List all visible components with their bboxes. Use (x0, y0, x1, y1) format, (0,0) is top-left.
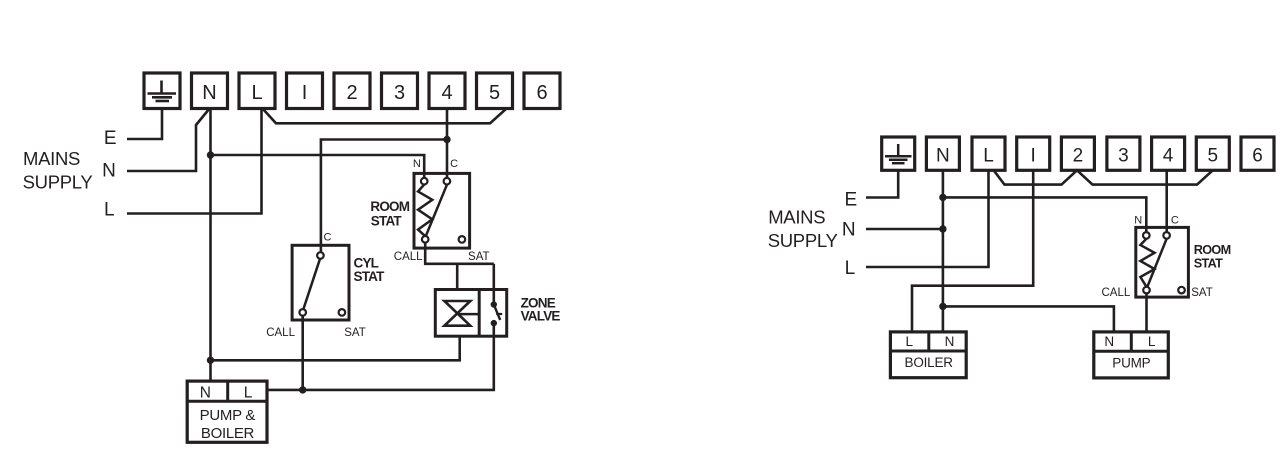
svg-text:I: I (302, 82, 308, 104)
TEXT LABELS (202, 82, 547, 104)
wire N branch to room stat right (943, 197, 1146, 235)
svg-text:PUMP: PUMP (1112, 355, 1150, 370)
wire N branch to room stat left (211, 155, 425, 181)
terminal box 3 left (382, 73, 418, 109)
room stat terminal CALL circle left (422, 236, 429, 243)
svg-text:L: L (1148, 334, 1156, 349)
svg-text:N: N (413, 158, 421, 170)
svg-text:3: 3 (1118, 146, 1129, 167)
zone valve motor hourglass left (444, 301, 470, 326)
wire to zone valve motor left (456, 264, 459, 290)
svg-text:N: N (1134, 215, 1142, 227)
pump terminal divider right (1130, 332, 1133, 351)
svg-text:PUMP &: PUMP & (200, 407, 256, 424)
svg-text:MAINS: MAINS (23, 148, 80, 169)
svg-text:CALL: CALL (394, 251, 423, 263)
room stat resistor zigzag right (1140, 239, 1154, 287)
svg-text:C: C (450, 158, 458, 170)
room stat terminal CALL circle right (1143, 287, 1150, 294)
terminal box 4 right (1152, 137, 1185, 170)
junction dot N-branch left (207, 151, 214, 158)
zone valve switch bottom contact left (491, 320, 497, 326)
room stat terminal C circle left (444, 178, 451, 185)
zone valve switch arm left (494, 305, 500, 321)
room stat terminal SAT circle left (459, 236, 466, 243)
svg-text:SUPPLY: SUPPLY (768, 230, 838, 251)
cyl stat terminal C circle left (317, 252, 324, 259)
svg-text:BOILER: BOILER (201, 425, 255, 442)
cyl stat terminal CALL circle left (299, 309, 306, 316)
wire link L to terminal 5 left (263, 109, 507, 124)
svg-text:N: N (102, 161, 116, 182)
wire room stat CALL to pump L right (1145, 293, 1148, 332)
wire terminal 4 to room stat C left (446, 109, 449, 182)
svg-text:N: N (200, 385, 211, 402)
svg-text:VALVE: VALVE (521, 308, 561, 323)
svg-text:4: 4 (1163, 146, 1174, 167)
svg-text:SAT: SAT (344, 327, 366, 339)
room stat switch arm right (1147, 239, 1166, 287)
svg-text:STAT: STAT (354, 269, 386, 284)
terminal box 3 right (1107, 137, 1140, 170)
svg-text:BOILER: BOILER (905, 355, 954, 370)
junction dot N branch right (939, 194, 946, 201)
cyl stat box left (292, 245, 349, 320)
svg-text:N: N (936, 146, 950, 167)
room stat terminal N circle left (421, 178, 428, 185)
pump box right (1094, 332, 1169, 378)
room stat resistor zigzag left (418, 185, 432, 236)
svg-text:5: 5 (489, 82, 500, 104)
wire terminal 1 to boiler L right (912, 170, 1033, 332)
junction dot cyl stat call left (299, 386, 306, 393)
room stat box right (1136, 227, 1189, 297)
cyl stat terminal SAT circle left (339, 309, 346, 316)
terminal box 5 left (477, 73, 513, 109)
wire cyl stat CALL down left (301, 316, 304, 390)
wire zone valve motor to N junction left (211, 336, 460, 360)
zone valve box left (435, 290, 506, 337)
svg-text:2: 2 (1073, 146, 1084, 167)
svg-text:2: 2 (346, 82, 357, 104)
pump and boiler terminal divider left (226, 381, 229, 401)
room stat terminal N circle right (1143, 232, 1150, 239)
wire zone valve switch to pump L left (267, 323, 494, 390)
terminal box N right (926, 137, 959, 170)
wire N split to pump right (943, 306, 1114, 332)
svg-text:SAT: SAT (468, 251, 490, 263)
junction dot N supply right (939, 225, 946, 232)
earth symbol left (148, 81, 177, 102)
svg-text:C: C (1171, 215, 1179, 227)
svg-text:5: 5 (1208, 146, 1219, 167)
wire N supply left (127, 109, 210, 172)
wire room stat CALL to zone valve left (425, 243, 494, 264)
wire to cyl stat C left (321, 140, 447, 256)
wire L supply right (866, 170, 989, 267)
pump and boiler terminal row line left (187, 400, 267, 403)
svg-text:SAT: SAT (1191, 287, 1213, 299)
boiler box right (890, 332, 966, 378)
wire N main vertical right (942, 170, 945, 332)
zone valve motor link line left (457, 313, 479, 316)
svg-text:ROOM: ROOM (1194, 243, 1231, 257)
boiler terminal row line right (890, 350, 966, 353)
svg-text:I: I (1031, 146, 1036, 167)
cyl stat switch arm left (304, 259, 321, 309)
terminal box 2 left (334, 73, 370, 109)
svg-text:C: C (324, 231, 332, 243)
svg-text:L: L (104, 199, 115, 220)
svg-text:L: L (983, 146, 994, 167)
wire E supply right (866, 170, 898, 197)
terminal box L left (239, 73, 275, 109)
junction dot terminal4-cyl left (443, 136, 450, 143)
wire E supply left (127, 109, 162, 140)
terminal box 1 left (287, 73, 323, 109)
room stat terminal SAT circle right (1178, 287, 1185, 294)
terminal box N left (192, 73, 228, 109)
svg-text:L: L (845, 258, 856, 279)
wire link L to 2 to 5 right (994, 170, 1213, 184)
terminal box E (earth) right (882, 137, 915, 170)
svg-text:CALL: CALL (1102, 287, 1131, 299)
wire N main vertical left (209, 109, 212, 382)
svg-text:N: N (1104, 334, 1114, 349)
wire N supply right (866, 228, 943, 231)
junction dot N split right (939, 303, 946, 310)
svg-text:E: E (104, 128, 117, 149)
svg-text:MAINS: MAINS (768, 207, 825, 228)
svg-text:CALL: CALL (266, 327, 295, 339)
svg-text:E: E (844, 190, 857, 211)
pump and boiler box left (187, 381, 267, 442)
svg-text:L: L (244, 385, 253, 402)
zone valve switch tick left (496, 313, 502, 315)
terminal box 4 left (429, 73, 465, 109)
svg-text:N: N (202, 82, 216, 104)
zone valve divider left (478, 290, 481, 337)
svg-text:L: L (905, 334, 913, 349)
room stat switch arm left (426, 185, 447, 236)
wire to zone valve switch left (492, 264, 495, 305)
svg-text:6: 6 (1252, 146, 1263, 167)
svg-text:ROOM: ROOM (370, 199, 409, 214)
room stat terminal C circle right (1163, 232, 1170, 239)
junction dot N-pump left (207, 357, 214, 364)
pump terminal row line right (1094, 350, 1169, 353)
terminal box 5 right (1196, 137, 1229, 170)
room stat box left (414, 173, 470, 248)
zone valve switch top contact left (491, 301, 497, 307)
terminal box 6 right (1241, 137, 1274, 170)
terminal box 2 right (1061, 137, 1094, 170)
terminal box 1 right (1017, 137, 1050, 170)
terminal box 6 left (524, 73, 560, 109)
svg-text:N: N (842, 219, 856, 240)
svg-text:STAT: STAT (1194, 257, 1223, 271)
earth symbol right (885, 144, 912, 163)
svg-text:STAT: STAT (371, 214, 403, 229)
wire L supply left (127, 109, 262, 214)
svg-text:4: 4 (441, 82, 452, 104)
terminal box L right (972, 137, 1005, 170)
boiler terminal divider right (927, 332, 930, 351)
svg-text:6: 6 (536, 82, 547, 104)
svg-text:L: L (251, 82, 262, 104)
svg-text:3: 3 (394, 82, 405, 104)
wire terminal 4 to room stat C right (1165, 170, 1168, 235)
svg-text:SUPPLY: SUPPLY (23, 172, 93, 193)
svg-text:N: N (945, 334, 955, 349)
terminal box E (earth) left (144, 73, 180, 109)
